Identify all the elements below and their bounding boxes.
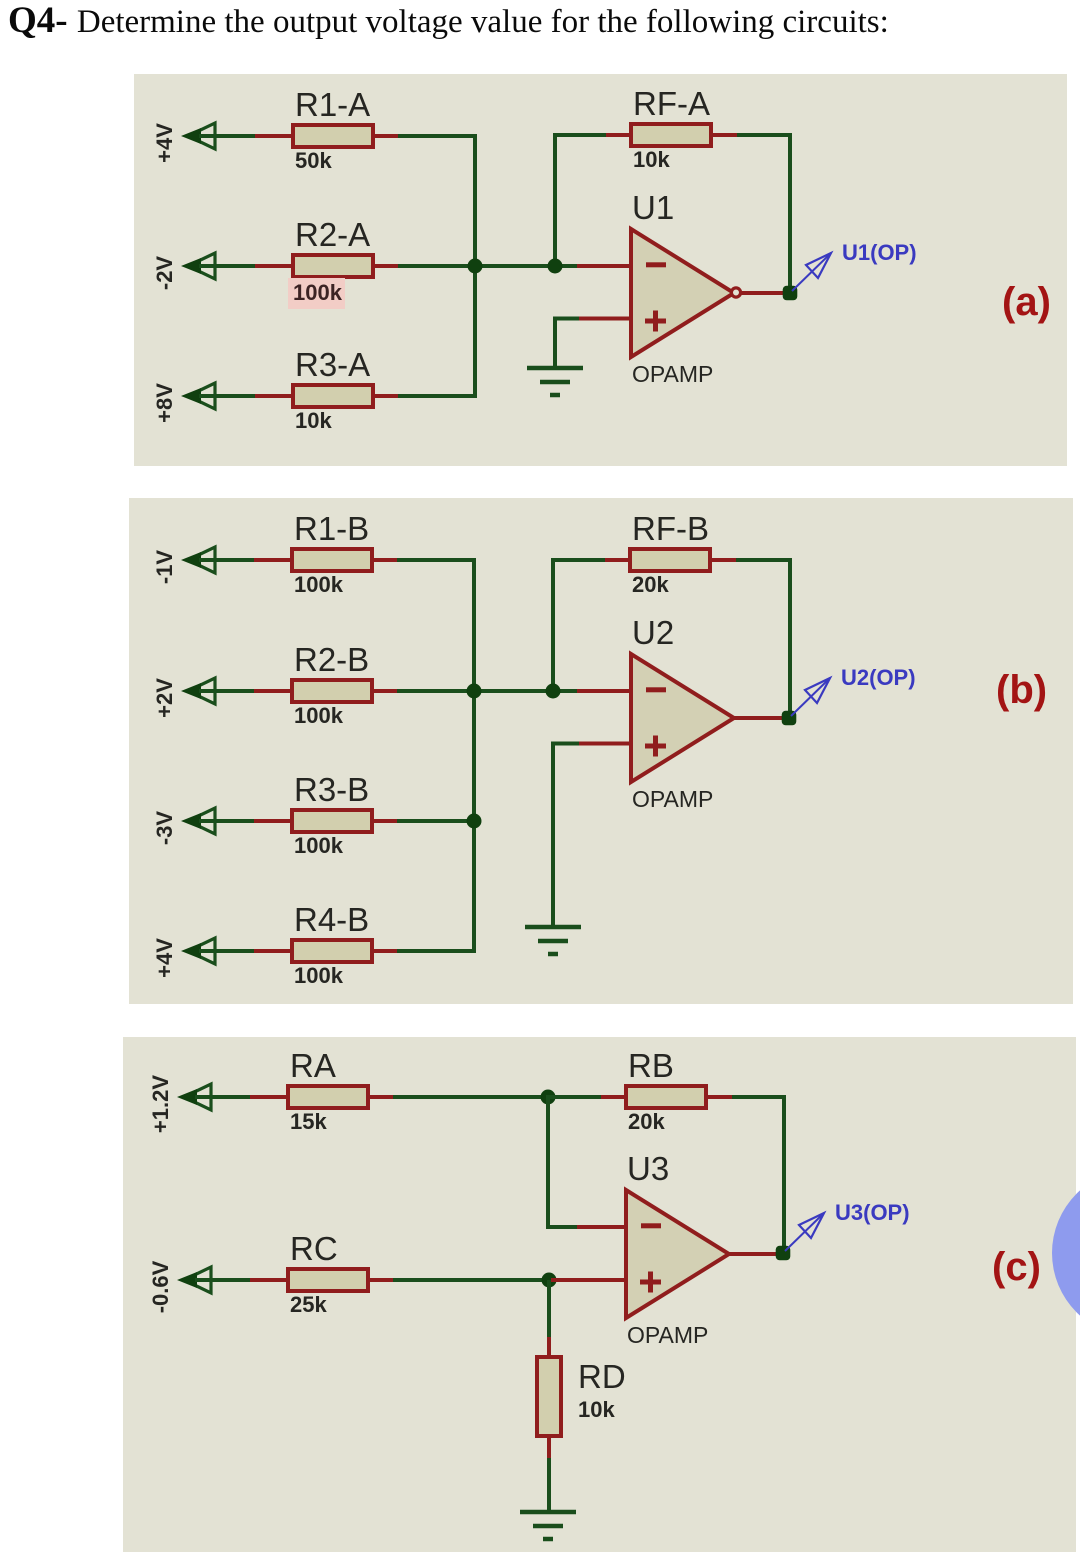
wire output drop [788,558,792,718]
resistor RF-B [605,549,738,571]
wire + input [555,317,579,321]
svg-text:20k: 20k [628,1109,665,1134]
junction inverting input [548,259,563,274]
svg-text:R4-B: R4-B [294,901,369,938]
svg-text:100k: 100k [293,280,343,305]
wire [199,949,256,953]
wire R1-B to bus [397,558,476,562]
wire to RF-A [553,133,607,137]
svg-text:100k: 100k [294,703,344,728]
resistor R3-A [255,385,400,407]
resistor R1-B [254,549,399,571]
svg-text:RB: RB [628,1047,674,1084]
input terminal +1.2V [177,1084,211,1110]
output pin ring [731,288,740,297]
svg-text:100k: 100k [294,572,344,597]
input terminal +2V [181,678,215,704]
op-amp U2 [631,654,734,782]
output pin [728,1252,777,1256]
resistor R2-B [254,680,399,702]
wire R2-A to op-amp [398,264,577,268]
svg-text:100k: 100k [294,833,344,858]
voltage probe U2(OP) [791,678,830,716]
svg-text:U2: U2 [632,614,674,651]
wire [195,1278,252,1282]
wire [199,689,256,693]
svg-text:100k: 100k [294,963,344,988]
panel (a) background [134,74,1067,466]
output junction [776,1246,791,1261]
svg-text:R2-A: R2-A [295,216,370,253]
wire to RF-B [551,558,606,562]
junction inverting input [546,684,561,699]
wire to ground [551,742,555,928]
svg-text:10k: 10k [633,147,670,172]
svg-text:RC: RC [290,1230,338,1267]
svg-text:OPAMP: OPAMP [632,361,713,387]
svg-text:-0.6V: -0.6V [148,1260,173,1313]
svg-text:+8V: +8V [152,383,177,423]
wire to RB [548,1095,602,1099]
resistor R4-B [254,940,399,962]
panel (b) background [129,498,1073,1004]
svg-text:+2V: +2V [152,678,177,718]
svg-text:R3-B: R3-B [294,771,369,808]
blue round button (clipped) [1052,1169,1080,1337]
svg-text:OPAMP: OPAMP [632,786,713,812]
wire R2-B to op-amp [397,689,577,693]
svg-text:-3V: -3V [152,811,177,846]
non-inverting input pin [551,1278,628,1282]
svg-text:50k: 50k [295,148,332,173]
svg-text:R1-A: R1-A [295,86,370,123]
svg-text:10k: 10k [295,408,332,433]
wire RF-B to output [736,558,792,562]
output pin [733,716,783,720]
wire inverting drop [546,1095,550,1229]
wire feedback drop [551,558,555,693]
wire output drop [788,133,792,293]
svg-text:U3(OP): U3(OP) [835,1200,910,1225]
wire to ground [553,317,557,369]
svg-text:(c): (c) [992,1245,1041,1289]
inverting input pin [577,1225,628,1229]
wire R3-A to bus [398,394,477,398]
output junction [782,711,797,726]
svg-text:(b): (b) [996,668,1047,712]
junction bus/inverting node [468,259,483,274]
wire [199,264,256,268]
resistor RC [250,1269,395,1291]
op-amp U3 [626,1190,729,1318]
svg-text:RD: RD [578,1358,626,1395]
resistor R2-A [255,255,400,277]
svg-text:+1.2V: +1.2V [148,1075,173,1133]
resistor RD [537,1337,561,1460]
non-inverting input pin [577,317,633,321]
wire feedback drop [553,133,557,268]
wire to RD [547,1280,551,1337]
wire RA to junction [393,1095,550,1099]
svg-text:Q4- Determine the output volta: Q4- Determine the output voltage value f… [8,0,889,41]
wire [195,1095,252,1099]
wire [199,134,256,138]
voltage probe U1(OP) [792,253,831,291]
input terminal +4V [181,938,215,964]
input terminal +8V [181,383,215,409]
resistor RA [250,1086,395,1108]
svg-text:U1(OP): U1(OP) [842,240,917,265]
ground [525,927,581,954]
wire RD to ground [547,1458,551,1513]
junction RA/RB [541,1090,556,1105]
wire [199,394,256,398]
output pin [738,291,784,295]
svg-text:R1-B: R1-B [294,510,369,547]
svg-text:U3: U3 [627,1150,669,1187]
input terminal -1V [181,547,215,573]
svg-text:RF-B: RF-B [632,510,709,547]
resistor RB [601,1086,734,1108]
svg-text:-1V: -1V [152,550,177,585]
output junction [783,286,798,301]
svg-text:U2(OP): U2(OP) [841,665,916,690]
svg-text:10k: 10k [578,1397,615,1422]
wire RC to junction [393,1278,551,1282]
svg-text:+4V: +4V [152,938,177,978]
wire RB to output [732,1095,786,1099]
svg-text:-2V: -2V [152,256,177,291]
vertical bus wire [473,134,477,398]
wire - input [548,1225,579,1229]
junction non-inverting [542,1273,557,1288]
input terminal -0.6V [177,1267,211,1293]
value label 100k [288,278,345,309]
svg-text:+4V: +4V [152,123,177,163]
svg-text:OPAMP: OPAMP [627,1322,708,1348]
wire output drop [782,1095,786,1253]
svg-text:R3-A: R3-A [295,346,370,383]
junction bus row2 [467,684,482,699]
wire + input [553,742,579,746]
inverting input pin [577,264,633,268]
svg-text:RA: RA [290,1047,336,1084]
junction bus row3 [467,814,482,829]
wire RF-A to output [737,133,792,137]
svg-text:20k: 20k [632,572,669,597]
wire R4-B to bus [397,949,476,953]
wire R3-B to bus [397,819,476,823]
svg-text:U1: U1 [632,189,674,226]
inverting input pin [577,689,633,693]
wire R1-A to bus [398,134,477,138]
wire [199,558,256,562]
panel (c) background [123,1037,1076,1552]
non-inverting input pin [577,742,633,746]
voltage probe U3(OP) [785,1213,824,1251]
resistor R1-A [255,125,400,147]
svg-text:25k: 25k [290,1292,327,1317]
svg-text:15k: 15k [290,1109,327,1134]
input terminal +4V [181,123,215,149]
svg-text:(a): (a) [1002,280,1051,324]
ground [527,368,583,395]
op-amp U1 [631,229,734,357]
svg-text:R2-B: R2-B [294,641,369,678]
ground [520,1512,576,1539]
wire [199,819,256,823]
resistor R3-B [254,810,399,832]
vertical bus wire [472,558,476,953]
resistor RF-A [606,124,739,146]
input terminal -3V [181,808,215,834]
input terminal -2V [181,253,215,279]
svg-text:RF-A: RF-A [633,85,710,122]
